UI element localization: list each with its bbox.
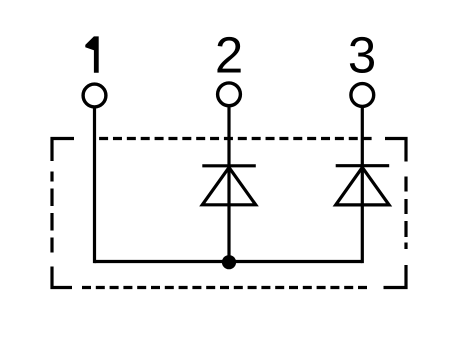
package outline bottom-left corner	[52, 267, 72, 288]
svg-text:3: 3	[348, 27, 376, 84]
pin label 1	[85, 36, 98, 72]
wire pin 3 vertical	[361, 108, 364, 264]
junction dot node	[222, 255, 236, 269]
diode D2 triangle (pin 3)	[336, 167, 389, 205]
package outline top edge dashed	[99, 137, 372, 140]
package outline top-right corner	[385, 139, 406, 162]
diode D1 cathode bar (pin 2)	[202, 164, 256, 167]
terminal circle pin 1	[83, 84, 106, 107]
terminal circle pin 3	[351, 84, 374, 107]
package outline bottom-right corner	[384, 265, 407, 288]
diode D1 triangle (pin 2)	[202, 167, 255, 204]
diode D2 cathode bar (pin 3)	[336, 164, 390, 167]
wire pin 1 vertical	[93, 108, 96, 264]
common rail wire	[95, 260, 363, 263]
terminal circle pin 2	[218, 83, 241, 106]
package outline right edge dashed	[404, 177, 407, 250]
package outline bottom edge dashed	[82, 286, 367, 289]
package outline top-left corner	[52, 139, 74, 162]
package outline left edge dashed	[50, 172, 53, 253]
wire pin 2 vertical	[227, 107, 230, 262]
svg-text:2: 2	[215, 27, 243, 84]
